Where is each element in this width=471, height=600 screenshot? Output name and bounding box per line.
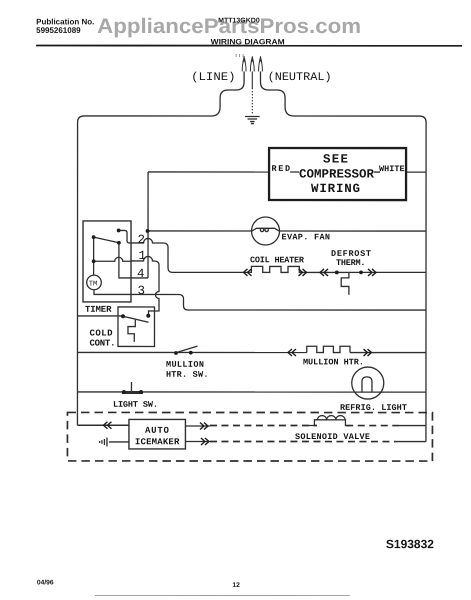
svg-text:2: 2 bbox=[138, 233, 146, 247]
svg-text:EVAP. FAN: EVAP. FAN bbox=[282, 232, 331, 242]
svg-text:1: 1 bbox=[139, 249, 147, 263]
svg-text:THERM.: THERM. bbox=[336, 258, 366, 268]
svg-text:SEE: SEE bbox=[323, 153, 348, 167]
svg-text:3: 3 bbox=[138, 284, 146, 298]
svg-text:REFRIG. LIGHT: REFRIG. LIGHT bbox=[340, 403, 407, 413]
svg-text:LIGHT SW.: LIGHT SW. bbox=[113, 400, 158, 410]
svg-text:(NEUTRAL): (NEUTRAL) bbox=[268, 71, 332, 84]
svg-text:(LINE): (LINE) bbox=[191, 71, 236, 84]
svg-text:04/96: 04/96 bbox=[37, 579, 54, 586]
svg-text:HTR. SW.: HTR. SW. bbox=[166, 370, 209, 380]
svg-text:COMPRESSOR: COMPRESSOR bbox=[299, 168, 374, 182]
svg-text:12: 12 bbox=[232, 582, 240, 589]
svg-text:COLD: COLD bbox=[89, 329, 113, 339]
svg-text:CONT.: CONT. bbox=[89, 339, 115, 349]
svg-text:S193832: S193832 bbox=[386, 537, 434, 551]
svg-text:COIL HEATER: COIL HEATER bbox=[250, 255, 305, 265]
svg-text:MULLION: MULLION bbox=[166, 360, 204, 370]
svg-text:ICEMAKER: ICEMAKER bbox=[135, 437, 180, 447]
svg-text:WIRING: WIRING bbox=[311, 182, 360, 196]
svg-text:MTT13GKD0: MTT13GKD0 bbox=[218, 17, 260, 24]
svg-text:AUTO: AUTO bbox=[145, 426, 170, 436]
svg-text:SOLENOID VALVE: SOLENOID VALVE bbox=[295, 432, 370, 442]
svg-text:4: 4 bbox=[137, 267, 145, 281]
svg-text:WHITE: WHITE bbox=[379, 164, 405, 174]
svg-text:5995261089: 5995261089 bbox=[36, 26, 81, 35]
svg-text:TIMER: TIMER bbox=[85, 305, 112, 315]
svg-text:MULLION HTR.: MULLION HTR. bbox=[303, 357, 364, 367]
svg-text:TM: TM bbox=[89, 281, 98, 289]
svg-text:RED: RED bbox=[272, 164, 291, 174]
